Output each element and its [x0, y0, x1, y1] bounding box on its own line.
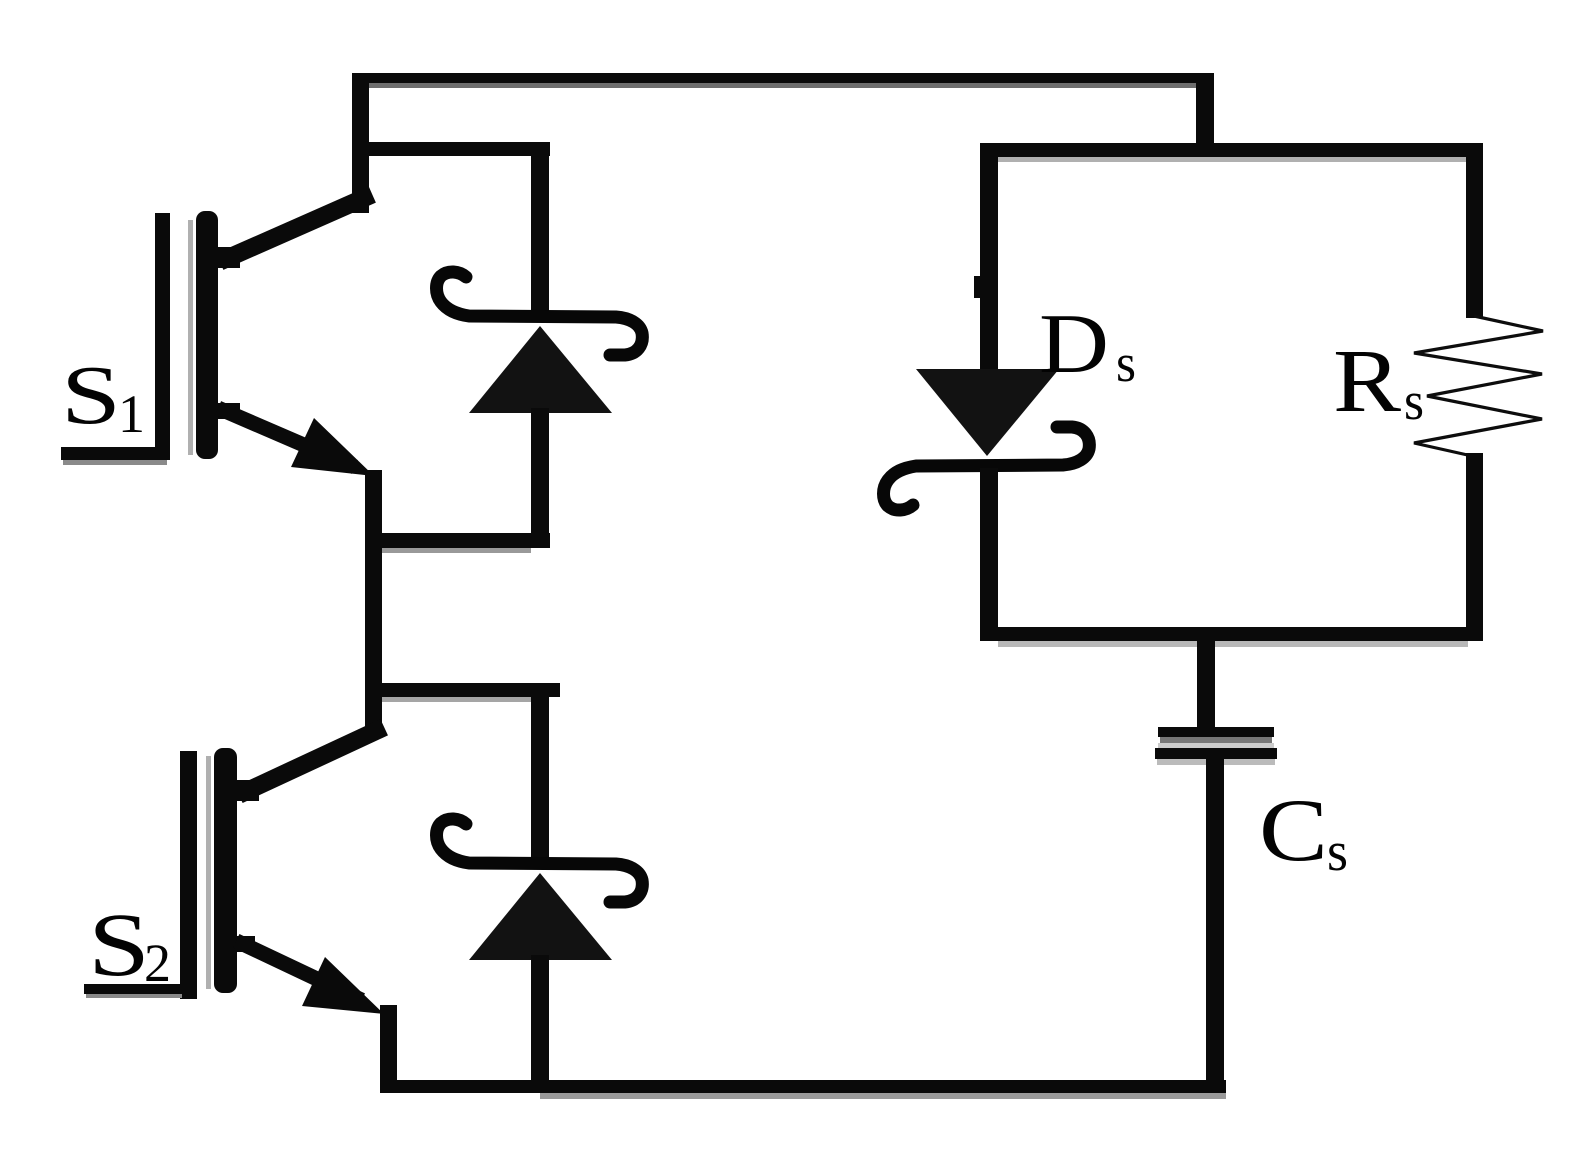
svg-text:S: S: [88, 896, 150, 995]
transistor S1 collector stub: [214, 247, 240, 268]
wire: snubber top rail: [981, 143, 1483, 157]
capacitor Cs bottom plate highlight: [1158, 743, 1274, 748]
wire: D2 top vertical: [531, 690, 549, 860]
svg-text:s: s: [1404, 371, 1424, 431]
capacitor Cs bottom plate shadow: [1157, 759, 1275, 765]
transistor S1 emitter diagonal: [225, 411, 348, 464]
wire: mid branch to D2 top: [365, 683, 560, 697]
wire: S2 emitter vertical to bottom rail: [380, 1005, 397, 1093]
wire: D2 bottom vertical: [531, 955, 549, 1093]
capacitor Cs bottom plate: [1155, 748, 1277, 759]
wire: snubber bottom rail: [981, 627, 1483, 641]
wire shadow under mid branch: [382, 548, 531, 553]
svg-text:D: D: [1039, 297, 1109, 391]
transistor S2 gate bar: [180, 751, 197, 999]
svg-text:s: s: [1327, 821, 1348, 883]
svg-text:2: 2: [144, 933, 171, 993]
svg-text:S: S: [61, 349, 121, 442]
wire: top positive rail: [352, 73, 1214, 83]
diode D2 (anti-parallel with S2): [437, 819, 643, 960]
wire: Rs bottom vertical: [1466, 453, 1483, 641]
transistor S1 body bar: [196, 211, 218, 459]
wire: mid branch from node A to D1 bottom: [365, 533, 550, 548]
transistor S2 emitter arrowhead: [302, 957, 384, 1014]
transistor S1 gate bar: [155, 213, 170, 460]
shadow under bottom rail: [540, 1093, 1226, 1099]
wire: D1 top vertical: [531, 142, 549, 312]
wire: capacitor bottom lead: [1206, 759, 1224, 1093]
wire: Rs top vertical: [1466, 143, 1483, 318]
diode Ds (snubber diode, pointing down): [884, 369, 1090, 510]
wire: bottom rail: [380, 1080, 1226, 1093]
wire: Ds bottom vertical: [980, 468, 998, 641]
transistor S1 emitter stub: [214, 403, 240, 419]
gray strip left of S1 body bar: [188, 220, 193, 455]
transistor S2 gate lead: [84, 984, 195, 994]
transistor S2 emitter stub: [233, 936, 255, 952]
wire: D1 bottom vertical: [531, 408, 549, 548]
transistor S2 collector diagonal: [247, 731, 376, 791]
shadow under branch to D2: [382, 697, 544, 702]
shadow under S1 gate lead: [63, 460, 167, 465]
svg-text:1: 1: [118, 384, 145, 444]
capacitor Cs top plate: [1158, 727, 1274, 737]
wire: capacitor top lead: [1197, 641, 1215, 729]
svg-text:C: C: [1259, 782, 1328, 880]
diode D1 (anti-parallel with S1): [437, 272, 643, 413]
shadow under snubber bottom rail: [998, 641, 1468, 647]
transistor S1 gate lead: [61, 447, 170, 460]
gray strip left of S2 body bar: [206, 756, 211, 989]
svg-text:R: R: [1333, 332, 1401, 431]
svg-text:s: s: [1116, 333, 1136, 393]
transistor S1 collector diagonal: [228, 198, 364, 258]
capacitor Cs top plate shadow: [1160, 737, 1272, 743]
wire: Ds top vertical: [980, 143, 998, 375]
transistor S2 emitter diagonal: [243, 944, 355, 997]
wire: right drop from top rail to snubber: [1196, 73, 1214, 157]
shadow under snubber top rail: [997, 157, 1468, 162]
shadow under S2 gate lead: [86, 994, 182, 998]
wire: mid vertical (node between S1 emitter and S2 collector): [365, 470, 382, 738]
transistor S2 collector stub: [233, 780, 259, 801]
wire: branch to D1 top (horizontal): [352, 142, 550, 156]
wire: left drop from top rail to S1 collector: [352, 73, 369, 213]
transistor S2 body bar: [214, 748, 237, 993]
nub on Ds vertical: [974, 276, 984, 298]
resistor Rs zigzag: [1414, 316, 1543, 456]
wire shadow under top rail: [369, 83, 1214, 88]
transistor S1 emitter arrowhead: [291, 418, 374, 476]
